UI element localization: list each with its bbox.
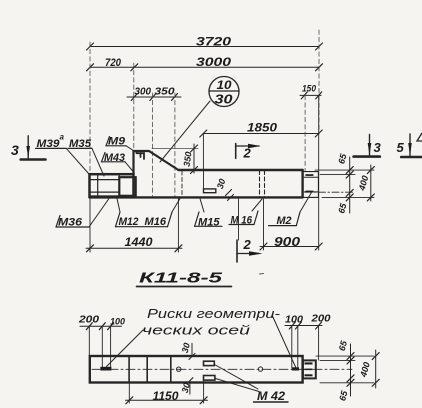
leader from circle [160, 101, 210, 162]
svg-text:350: 350 [182, 151, 194, 167]
column body right edge [301, 170, 303, 197]
label M16 second [229, 211, 258, 226]
plan extension 1150 right [203, 381, 205, 403]
plan dim 30 bottom [180, 378, 193, 394]
detail circle 10/30 [209, 77, 239, 107]
centerline right of tenon [305, 191, 353, 193]
plan right extension x318.6 [318, 326, 320, 361]
leader M16 second [252, 199, 262, 211]
plan joint x171 [170, 356, 172, 383]
leader M12 [117, 199, 120, 213]
plan riska right lines [292, 326, 299, 371]
svg-text:5: 5 [397, 140, 405, 155]
plan dim 400 right vertical [358, 350, 379, 388]
leader M36 [89, 199, 109, 228]
extension 900 left [263, 199, 265, 250]
leader M39a [66, 148, 89, 174]
svg-text:2: 2 [243, 146, 252, 161]
svg-text:400: 400 [357, 174, 371, 192]
svg-text:65: 65 [337, 389, 350, 402]
svg-text:65: 65 [336, 152, 349, 165]
dim 350 vertical [152, 144, 198, 174]
section marker 3 left [21, 136, 46, 160]
plan joint x129 [128, 356, 130, 383]
plan view body outline [90, 356, 303, 383]
dimension 150 line [300, 92, 322, 99]
label M36 [56, 216, 89, 229]
label M35 [68, 138, 92, 150]
plan right chain extension body bottom [320, 382, 374, 384]
plan dim 65 right vertical [337, 339, 354, 402]
svg-text:400: 400 [358, 361, 372, 379]
plan extension 1150 left [128, 383, 130, 403]
mid plate edge-on [203, 134, 215, 193]
right chain extension body top [315, 169, 374, 171]
svg-text:65: 65 [336, 201, 349, 214]
svg-text:1850: 1850 [247, 121, 277, 135]
leader M42 bottom plate [216, 379, 260, 392]
dim 30 mid-body rotated [215, 178, 234, 201]
svg-text:900: 900 [274, 234, 301, 249]
column top-view left bracket outline [90, 174, 134, 196]
extension 1440 left [89, 198, 91, 252]
label M42 [254, 389, 289, 403]
svg-text:3000: 3000 [196, 55, 231, 69]
svg-text:300: 300 [135, 87, 152, 98]
leader M43 [125, 162, 134, 172]
label M15 [195, 212, 222, 228]
leader M35 [92, 148, 104, 176]
plan view dim 200/100 left line [80, 323, 121, 330]
label M9 [106, 136, 126, 148]
plan joint x147 [146, 356, 148, 383]
plan dim 30 top [180, 342, 195, 360]
section marker 2 top [236, 144, 261, 159]
dimension 3720 line [87, 43, 323, 50]
column body top edge [178, 169, 302, 171]
plan plate bottom [204, 376, 215, 381]
leader M16 [172, 199, 180, 213]
svg-text:3: 3 [11, 142, 19, 158]
svg-text:К11-8-5: К11-8-5 [139, 270, 223, 287]
plan riska left lines [100, 326, 111, 370]
right chain extension tenon top [320, 174, 355, 176]
label M39a [36, 133, 67, 151]
partial glyph 4 at edge [417, 133, 422, 141]
extension line x133.5 dashed [133, 63, 135, 150]
svg-text:М 42: М 42 [257, 389, 285, 403]
plan axis circle 1 [177, 367, 181, 371]
leader M9 [126, 146, 137, 153]
dimension 1440 line [86, 245, 182, 252]
plan right chain extension body top [316, 355, 374, 357]
extension line left dashed [89, 42, 91, 173]
extension line x152.5 dashed [152, 93, 154, 196]
dashed line x182 [181, 171, 183, 197]
svg-text:Риски геометри-: Риски геометри- [147, 306, 281, 321]
label M2 [269, 212, 300, 227]
svg-text:30: 30 [215, 178, 228, 191]
column body bottom edge [90, 196, 303, 198]
plan plate top [204, 361, 215, 365]
plan view dim 100/200 right line [285, 322, 322, 329]
leader M2 [300, 192, 312, 213]
svg-text:30: 30 [180, 342, 192, 354]
svg-text:30: 30 [215, 92, 234, 107]
plan axis circle 2 [258, 367, 262, 371]
svg-text:350: 350 [155, 87, 176, 98]
title K11-8-5 [137, 270, 232, 287]
extension line x305 dashed [304, 95, 306, 171]
label M43 [102, 152, 126, 164]
extension line x318.7 solid long [318, 95, 320, 250]
svg-text:2: 2 [243, 237, 252, 252]
dimension 720/3000 line [87, 64, 323, 71]
dim 65 top-right vertical line [336, 152, 353, 215]
svg-text:150: 150 [302, 84, 316, 94]
svg-text:720: 720 [105, 57, 122, 69]
svg-text:100: 100 [285, 315, 303, 326]
section marker 3 right [354, 134, 380, 156]
svg-text:3720: 3720 [196, 35, 231, 49]
plan left extension x89.3 [88, 326, 90, 356]
dimension 300/350 line [127, 94, 181, 101]
dimension 1850 line [200, 130, 322, 137]
svg-text:10: 10 [217, 78, 232, 92]
plan right chain extension tenon top [320, 359, 355, 361]
svg-text:200: 200 [78, 315, 100, 326]
leader note left [107, 330, 144, 367]
svg-text:100: 100 [110, 317, 125, 327]
plan centerline [92, 368, 352, 370]
svg-text:200: 200 [310, 314, 331, 325]
svg-text:ческих осей: ческих осей [142, 323, 250, 338]
bracket inner plate thick rect [119, 177, 135, 196]
extension line right dashed [318, 30, 320, 134]
label M12 M16 [116, 212, 173, 228]
svg-text:1440: 1440 [125, 235, 153, 249]
dim 400 top-right vertical line [357, 165, 375, 201]
svg-text:3: 3 [374, 140, 382, 155]
weld hook mark M9 target [137, 153, 145, 159]
plan dimension 1150 line [126, 397, 208, 404]
extension 1440 right [177, 198, 179, 252]
section marker 2 bottom [237, 199, 263, 262]
leader note right [272, 315, 296, 368]
tenon side view [303, 172, 319, 198]
extension line x174.9 dashed [174, 93, 176, 197]
leader M15 [200, 199, 204, 213]
hidden joint dashed pair [260, 171, 265, 198]
right chain extension body bottom [322, 196, 374, 198]
section marker 5 right [401, 134, 422, 157]
stray mark [260, 273, 264, 276]
leader M42 top plate [215, 365, 259, 390]
dimension 900 line [260, 243, 322, 250]
column step profile [134, 151, 179, 173]
svg-text:1150: 1150 [153, 389, 179, 403]
svg-text:а: а [60, 133, 65, 142]
svg-text:65: 65 [337, 339, 350, 352]
plan tenon [303, 360, 316, 378]
